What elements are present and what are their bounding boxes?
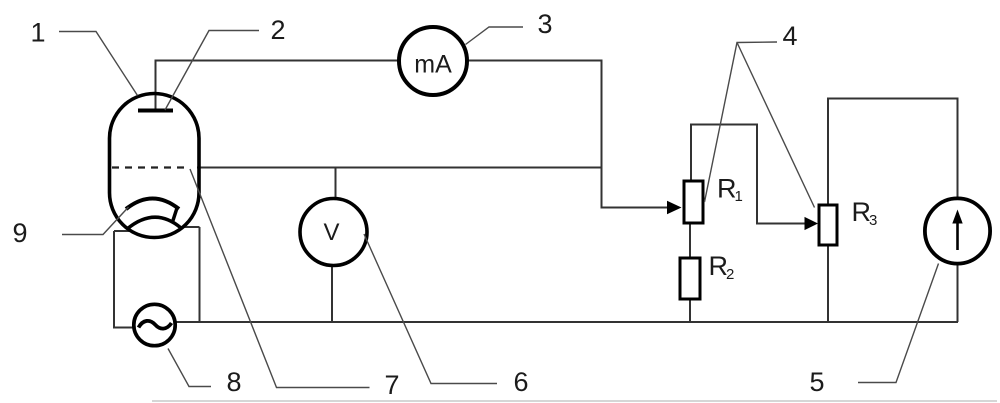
AC source (heater supply, label 8): [134, 304, 175, 345]
svg-text:9: 9: [12, 218, 27, 248]
R3 wiper arrowhead: [805, 217, 819, 230]
svg-text:8: 8: [226, 367, 241, 397]
svg-text:4: 4: [782, 21, 797, 51]
wire: heater box right vertical: [199, 227, 201, 322]
svg-text:1: 1: [735, 188, 743, 205]
resistor R1 (potentiometer): [684, 181, 703, 223]
resistor R3 (potentiometer): [819, 205, 837, 245]
mA meter (milliammeter, label 3): [399, 27, 467, 95]
wire: heater box top-left stub: [114, 230, 130, 232]
svg-text:2: 2: [270, 15, 285, 45]
resistor R2: [680, 258, 700, 299]
wire: V meter top lead: [335, 168, 337, 201]
svg-text:mA: mA: [414, 51, 452, 79]
label 5 leader: [858, 264, 939, 383]
grid dashed electrode: [112, 166, 184, 168]
tube V1 envelope: [110, 94, 200, 238]
svg-text:3: 3: [537, 9, 552, 39]
wire: heater box top-right stub: [184, 226, 200, 228]
anode (label 2) bar: [138, 109, 173, 113]
svg-text:V: V: [323, 219, 339, 246]
wire: current source bottom to bus: [957, 263, 959, 322]
label 1 leader: [59, 32, 138, 96]
label 8 leader: [168, 349, 211, 387]
wire: heater box left vertical: [114, 231, 136, 328]
V meter (voltmeter, label 6): [300, 199, 367, 266]
svg-text:3: 3: [869, 212, 877, 229]
heater arc: [127, 217, 181, 229]
AC sine wave: [139, 321, 172, 329]
page edge artifact line: [152, 400, 997, 402]
wire: anode top wire from tube to mA meter and right corner: [156, 61, 669, 208]
current source (label 5): [925, 198, 990, 263]
label 9 leader: [62, 207, 129, 235]
wire: R3 bottom to bus: [827, 245, 829, 322]
label 4 leader right leg: [737, 43, 815, 208]
svg-text:5: 5: [809, 367, 824, 397]
svg-text:2: 2: [726, 266, 734, 283]
svg-text:7: 7: [384, 370, 399, 400]
label 4 leader: [705, 42, 778, 202]
wire: V meter bottom lead: [331, 264, 333, 322]
label 7 leader: [190, 169, 370, 388]
cathode lead link: [172, 208, 177, 224]
wire: R1 top loop to R3 wiper: [691, 125, 806, 224]
wire: R1 bottom to R2 top: [689, 223, 691, 258]
label 2 leader: [165, 31, 259, 111]
R1 wiper arrowhead: [667, 201, 682, 214]
current source arrow: [956, 221, 959, 250]
wire: bottom bus: [175, 321, 958, 323]
svg-text:1: 1: [30, 18, 45, 48]
svg-text:6: 6: [513, 367, 528, 397]
wire: R3 top loop to current source top: [828, 99, 958, 206]
wire: grid wire from tube to right vertical: [197, 167, 602, 169]
label 6 leader: [364, 234, 497, 384]
wire: R2 bottom to bus: [689, 299, 691, 322]
cathode arc: [126, 199, 179, 210]
label 3 leader: [466, 27, 524, 45]
